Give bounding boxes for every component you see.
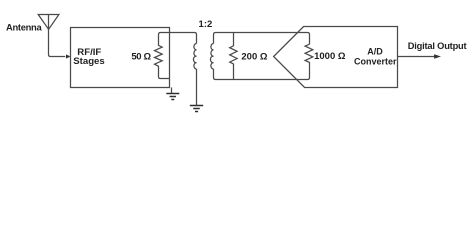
- svg-text:200 Ω: 200 Ω: [241, 52, 267, 63]
- svg-text:1000 Ω: 1000 Ω: [314, 51, 346, 62]
- transformer secondary winding: [210, 43, 213, 69]
- arrowhead digital output: [434, 54, 441, 59]
- wire 50 ohm top to transformer primary: [159, 33, 197, 44]
- wire primary bottom to ground: [196, 69, 198, 105]
- ground 1 (below RF/IF box corner): [166, 94, 179, 100]
- A/D converter block: [274, 27, 398, 88]
- wire box corner to ground 1: [171, 88, 173, 94]
- svg-text:50 Ω: 50 Ω: [131, 51, 151, 62]
- svg-text:Converter: Converter: [354, 57, 397, 67]
- transformer primary winding: [193, 43, 196, 69]
- wire secondary top to 1000 ohm / A/D: [214, 33, 310, 45]
- svg-text:Stages: Stages: [73, 56, 104, 67]
- RF/IF Stages box: [71, 28, 170, 88]
- resistor R 1000 ohm: [305, 44, 313, 65]
- bottom rail secondary to 1000 ohm: [214, 66, 310, 80]
- wire digital output: [398, 56, 435, 58]
- wire antenna to RF/IF box: [49, 29, 66, 56]
- resistor R 200 ohm: [230, 33, 237, 80]
- resistor R 50 ohm: [155, 35, 170, 79]
- ground 2 (below transformer primary): [190, 106, 203, 112]
- antenna: [38, 15, 59, 30]
- svg-text:A/D: A/D: [367, 47, 383, 57]
- svg-text:Digital Output: Digital Output: [408, 41, 467, 51]
- svg-text:1:2: 1:2: [199, 19, 213, 30]
- svg-text:Antenna: Antenna: [6, 22, 42, 33]
- arrowhead into RF/IF box: [66, 54, 70, 58]
